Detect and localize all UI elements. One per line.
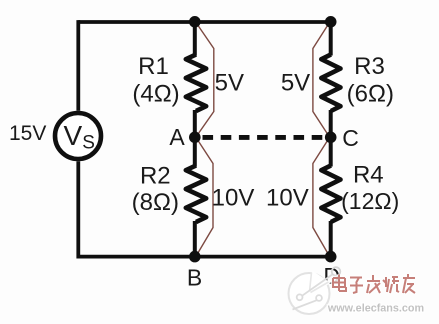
char 友 [403,274,415,293]
svg-text:C: C [342,125,359,151]
svg-text:15V: 15V [9,122,46,145]
svg-text:(8Ω): (8Ω) [132,189,179,216]
svg-text:R4: R4 [353,162,384,189]
svg-text:5V: 5V [215,70,244,97]
wire right branch upper [329,22,333,56]
wire bottom [78,255,330,259]
wire top [78,20,330,24]
svg-text:(6Ω): (6Ω) [347,80,394,107]
svg-text:R1: R1 [138,53,169,80]
red voltage bracket R1 [197,24,214,136]
wire left branch bottom [193,221,197,257]
node B [189,251,201,263]
resistor R2 [186,166,206,223]
node D [325,251,337,263]
wire left branch upper [193,22,197,56]
svg-text:www.elecfans.com: www.elecfans.com [327,303,424,315]
svg-text:10V: 10V [266,185,309,212]
red voltage bracket R3 [313,24,329,136]
resistor R4 [321,166,340,223]
red voltage bracket R4 [313,139,329,255]
wire left upper [76,20,80,111]
voltage source Vs [55,113,101,159]
dashed wire A to C [203,135,325,140]
svg-text:R3: R3 [354,53,385,80]
svg-text:(12Ω): (12Ω) [341,188,399,214]
wire left lower [76,161,80,258]
watermark logo disc [289,267,341,314]
watermark text 电子发烧友 [333,274,415,293]
char 发 [367,275,380,293]
node top-right junction [325,16,337,28]
wire right branch bottom [329,221,333,257]
wire right branch mid [329,110,333,167]
node top-left junction [189,16,201,28]
char 烧 [383,277,399,293]
char 子 [350,278,363,294]
node C [325,132,337,144]
svg-text:B: B [187,264,202,290]
resistor R3 [321,55,340,112]
svg-text:R2: R2 [140,162,171,189]
red voltage bracket R2 [197,139,213,255]
char 电 [333,275,346,292]
watermark text 电子发烧友 halo [333,274,415,293]
svg-text:(4Ω): (4Ω) [132,80,179,107]
node A [189,132,201,144]
svg-text:5V: 5V [281,70,310,97]
svg-text:10V: 10V [212,185,255,212]
svg-text:A: A [169,124,185,150]
wire left branch mid [193,110,197,167]
resistor R1 [186,55,206,112]
